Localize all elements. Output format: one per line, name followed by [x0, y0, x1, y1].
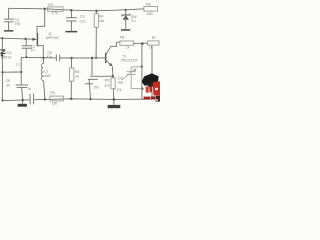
watermark red blob right [153, 81, 160, 96]
capacitor C5 [16, 85, 28, 100]
resistor R3 [50, 96, 64, 101]
node dot C5 to rail [22, 99, 24, 101]
node dot C3 at rail [70, 9, 72, 11]
capacitor C1 series in bottom line [30, 94, 33, 105]
svg-text:R7: R7 [152, 36, 156, 40]
svg-text:2n: 2n [6, 83, 10, 87]
resistor R8 [144, 7, 158, 12]
node dot left rail tap [1, 71, 3, 73]
diode D1 1N914 [0, 50, 5, 57]
resistor R7 [148, 41, 159, 45]
node dot L2 bottom [44, 98, 46, 100]
svg-text:470: 470 [104, 84, 110, 88]
wire L1 branch vertical [20, 57, 22, 84]
node dot drain at rail [44, 8, 46, 10]
node dot R4 at bus [95, 57, 97, 59]
wire left tap horizontal [2, 71, 21, 73]
svg-text:0.01: 0.01 [80, 20, 87, 24]
watermark cap brim [147, 82, 159, 88]
resistor R9 emitter [111, 76, 115, 99]
wire output vertical [141, 44, 143, 100]
node dot R3 right [70, 98, 72, 100]
node dot R9 at rail [113, 98, 116, 101]
svg-text:MPF102: MPF102 [46, 36, 59, 40]
ground under C4 [4, 30, 13, 32]
watermark red block mid [149, 87, 152, 93]
svg-text:11k: 11k [99, 19, 105, 23]
svg-text:L2: L2 [44, 69, 48, 73]
JFET J1 channel bar [36, 33, 38, 46]
svg-text:1k: 1k [149, 46, 153, 50]
node dot emitter [112, 75, 114, 77]
svg-text:C3: C3 [80, 15, 84, 19]
watermark text row [144, 97, 151, 100]
variable capacitor C9 [122, 67, 142, 89]
svg-text:R6: R6 [120, 35, 124, 39]
node dot left tap [20, 71, 22, 73]
watermark red block left [146, 86, 149, 93]
svg-text:47k: 47k [116, 88, 122, 92]
wire input to gate [0, 38, 33, 39]
wire emitter vertical [111, 66, 114, 76]
node dot gate junction [24, 38, 26, 40]
transistor T1 base bar [105, 53, 107, 63]
watermark www block [156, 96, 160, 102]
wire emitter to C7 [96, 75, 113, 77]
svg-text:150: 150 [52, 102, 58, 106]
wire top supply rail [9, 8, 144, 11]
JFET J1 drain lead [37, 9, 45, 33]
capacitor C6 emitter-ground [85, 80, 93, 100]
svg-text:J1: J1 [48, 32, 52, 36]
transistor T1 collector lead [106, 42, 120, 54]
zener diode DW [122, 10, 131, 29]
transistor T1 emitter lead [106, 60, 111, 65]
capacitor C8 47p [56, 55, 59, 62]
wire R6 to R7 [134, 42, 148, 44]
svg-text:R9: R9 [105, 79, 109, 83]
transistor T1 emitter arrowhead [109, 63, 113, 67]
svg-text:R2: R2 [48, 3, 53, 7]
svg-text:w: w [155, 98, 159, 102]
ground bottom middle [108, 100, 121, 108]
watermark red notch white [155, 88, 158, 90]
svg-text:1k: 1k [126, 46, 130, 50]
ground under C3 [65, 31, 77, 33]
svg-text:10n: 10n [93, 86, 99, 90]
svg-text:2N2222A: 2N2222A [121, 59, 138, 63]
wire oscillator line (source/base bus) [43, 57, 56, 59]
node dot output low [141, 88, 143, 90]
node dot zener at rail [125, 9, 127, 11]
capacitor C2 [22, 39, 32, 57]
node dot C7 top [91, 57, 93, 59]
svg-text:R5: R5 [75, 70, 79, 74]
watermark logo dzsc [142, 73, 160, 102]
resistor R4 [94, 11, 98, 58]
JFET J1 gate arrow [32, 38, 36, 41]
capacitor C3 [66, 10, 77, 31]
JFET J1 source lead [38, 46, 44, 58]
node dot C2 bottom [25, 56, 27, 58]
svg-text:R3: R3 [50, 91, 55, 95]
wire source line left segment [21, 56, 43, 58]
svg-text:1n: 1n [31, 48, 35, 52]
node dot output junction [141, 42, 144, 45]
resistor R2 [48, 7, 63, 11]
node dot L2 top [42, 57, 44, 59]
svg-text:C5: C5 [6, 79, 10, 83]
wire right rail [151, 45, 153, 99]
inductor L2 [41, 58, 45, 99]
resistor R5 [70, 58, 74, 99]
node dot bottom-left corner [1, 99, 3, 101]
node dot R5 top [70, 57, 72, 59]
resistor R6 [120, 41, 134, 45]
wire bottom ground rail [2, 99, 29, 102]
svg-text:1n: 1n [27, 87, 31, 91]
node dot R4 at rail [95, 10, 97, 12]
capacitor C4 [4, 8, 14, 30]
svg-text:4.7k: 4.7k [52, 11, 59, 15]
capacitor C7 base-emitter [88, 58, 98, 79]
node dot input corner [1, 37, 3, 39]
svg-text:9.1: 9.1 [131, 19, 136, 23]
svg-text:R8: R8 [146, 3, 151, 7]
svg-text:47p: 47p [46, 55, 52, 59]
node dot C6 bottom rail [89, 98, 91, 100]
node dot output mid [141, 65, 143, 67]
svg-text:10μ: 10μ [15, 22, 21, 26]
wire left rail [1, 38, 3, 50]
ground under zener [121, 29, 130, 31]
svg-text:180: 180 [147, 12, 153, 16]
svg-text:R4: R4 [99, 14, 104, 18]
svg-text:1mH: 1mH [43, 74, 51, 78]
watermark cap board [142, 73, 159, 85]
svg-text:1k: 1k [75, 75, 79, 79]
ground bottom left [18, 100, 27, 107]
svg-text:20p: 20p [118, 80, 124, 84]
svg-text:L1: L1 [16, 62, 20, 66]
svg-text:1N914: 1N914 [1, 55, 11, 59]
